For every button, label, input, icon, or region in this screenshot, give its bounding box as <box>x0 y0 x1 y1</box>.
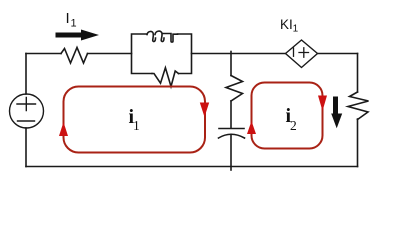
svg-text:1: 1 <box>133 118 140 133</box>
svg-text:KI: KI <box>280 17 293 32</box>
svg-text:I: I <box>66 10 70 27</box>
svg-text:1: 1 <box>71 18 77 30</box>
svg-text:1: 1 <box>293 24 299 35</box>
svg-text:2: 2 <box>290 118 297 133</box>
